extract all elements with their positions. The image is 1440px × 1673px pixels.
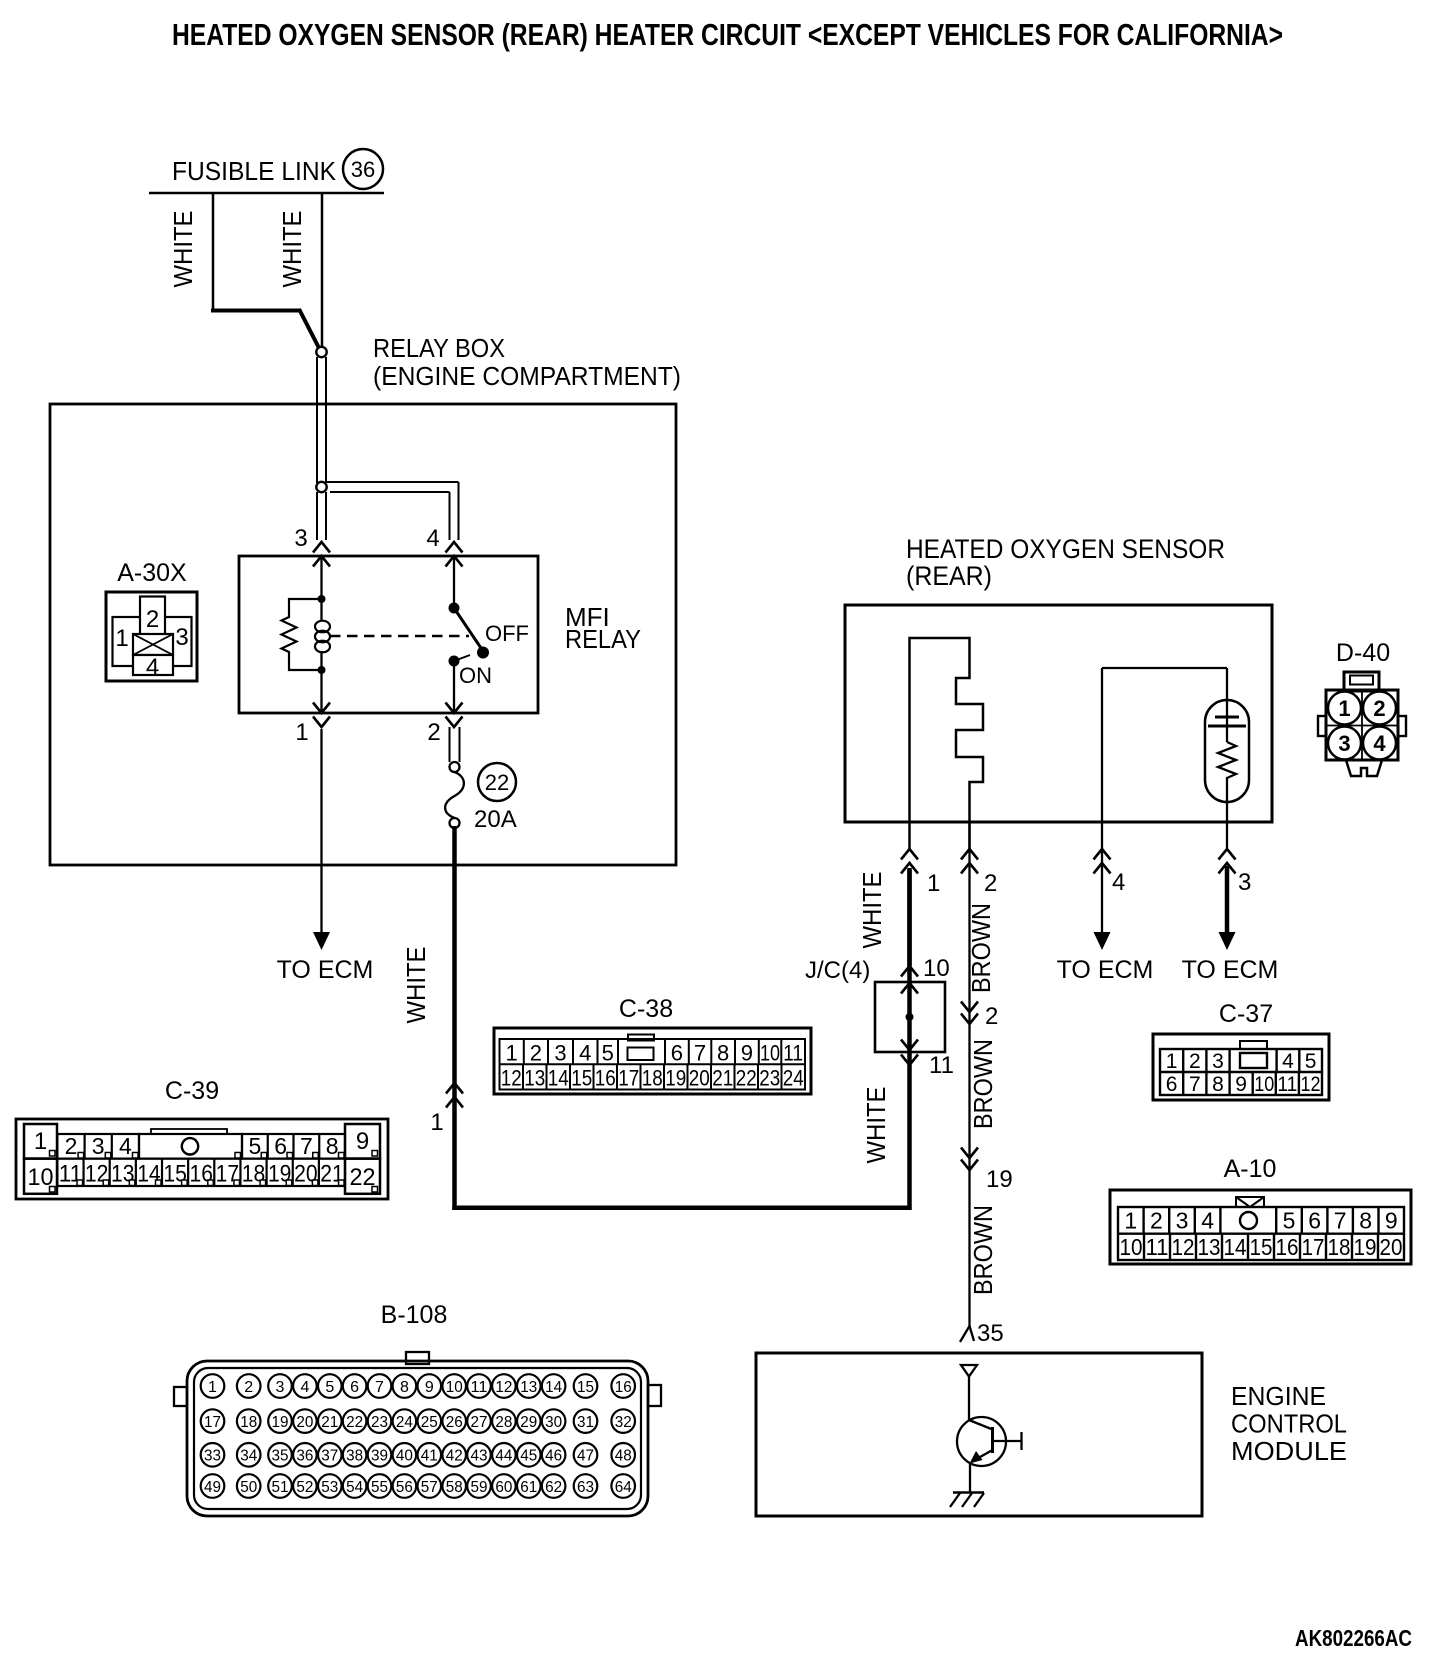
svg-text:13: 13 [1198, 1234, 1221, 1260]
A-30X crossed key box [133, 634, 173, 655]
svg-text:27: 27 [471, 1414, 488, 1431]
engine control module box [756, 1353, 1202, 1516]
svg-text:25: 25 [421, 1414, 438, 1431]
svg-text:4: 4 [300, 1379, 309, 1396]
svg-text:18: 18 [642, 1066, 663, 1091]
svg-text:49: 49 [204, 1479, 221, 1496]
J/C(4) junction box [875, 982, 945, 1052]
svg-text:22: 22 [485, 770, 509, 795]
C-39 bottom row cells 11-21 [57, 1159, 345, 1186]
svg-text:30: 30 [545, 1414, 562, 1431]
sensor pin 3 to-ECM arrowhead [1219, 932, 1236, 950]
A-30X pin 4 cell [133, 655, 173, 675]
A-10 inner box [1118, 1207, 1404, 1260]
C-39 key cell with circle [139, 1134, 242, 1159]
sensor pin 3 chevrons [1219, 849, 1236, 860]
svg-text:39: 39 [371, 1448, 388, 1465]
svg-text:21: 21 [321, 1414, 338, 1431]
svg-text:2: 2 [985, 1003, 998, 1030]
svg-text:16: 16 [1276, 1234, 1299, 1260]
D-40 pin circles [1328, 692, 1361, 725]
C-39 pin 22 box [345, 1159, 380, 1194]
svg-text:6: 6 [274, 1133, 287, 1159]
svg-text:59: 59 [471, 1479, 488, 1496]
svg-text:10: 10 [923, 955, 950, 982]
svg-text:5: 5 [1305, 1050, 1317, 1073]
svg-text:CONTROL: CONTROL [1231, 1409, 1347, 1439]
svg-text:3: 3 [554, 1041, 566, 1066]
svg-text:ENGINE: ENGINE [1231, 1381, 1326, 1411]
B-108 outer shell [187, 1361, 648, 1516]
svg-text:37: 37 [321, 1448, 338, 1465]
svg-text:55: 55 [371, 1479, 388, 1496]
relay coil [318, 595, 326, 603]
svg-text:WHITE: WHITE [861, 1087, 891, 1164]
MFI relay box [239, 556, 538, 713]
svg-text:60: 60 [495, 1479, 512, 1496]
svg-text:RELAY: RELAY [565, 624, 641, 654]
svg-text:18: 18 [240, 1414, 257, 1431]
pin 2 chevrons [446, 703, 463, 714]
svg-text:C-38: C-38 [619, 995, 673, 1023]
svg-text:12: 12 [495, 1379, 512, 1396]
D-40 side tabs [1318, 716, 1326, 736]
svg-text:20: 20 [296, 1414, 313, 1431]
svg-text:FUSIBLE LINK: FUSIBLE LINK [172, 156, 337, 186]
pin 1 chevrons [313, 703, 330, 714]
sensor pin 3 wire thick [1225, 866, 1230, 934]
relay box entry terminal circle [316, 347, 326, 357]
A-30X horizontal cell (pins 1,3) [113, 617, 192, 666]
svg-text:2: 2 [1189, 1050, 1201, 1073]
wire bus double-line into relay box [316, 357, 318, 483]
svg-text:64: 64 [615, 1479, 632, 1496]
C-38 key slot [628, 1048, 654, 1061]
arrowhead to ECM [313, 932, 330, 950]
svg-text:ON: ON [459, 663, 492, 688]
A-10 outer box [1110, 1190, 1411, 1264]
svg-text:14: 14 [1224, 1234, 1247, 1260]
fuse 22 double-line lead [449, 727, 451, 762]
C-39 outer box [16, 1119, 388, 1199]
svg-text:7: 7 [300, 1133, 313, 1159]
svg-text:50: 50 [240, 1479, 257, 1496]
C-39 cell notches [50, 1151, 56, 1157]
svg-text:40: 40 [396, 1448, 413, 1465]
svg-text:22: 22 [346, 1414, 363, 1431]
sensor element (zirconia comb) [910, 638, 984, 849]
svg-text:3: 3 [1338, 731, 1350, 756]
svg-text:13: 13 [520, 1379, 537, 1396]
C-39 key top bar [151, 1129, 227, 1134]
svg-text:11: 11 [929, 1052, 954, 1079]
svg-text:2: 2 [1373, 696, 1385, 721]
B-108 pin circles [201, 1374, 225, 1398]
fuse element S-curve [445, 772, 464, 818]
svg-text:20: 20 [1380, 1234, 1403, 1260]
svg-text:2: 2 [146, 606, 159, 633]
relay box (engine compartment) [50, 404, 676, 865]
svg-text:23: 23 [759, 1066, 780, 1091]
svg-text:19: 19 [665, 1066, 686, 1091]
svg-text:9: 9 [356, 1128, 369, 1155]
svg-text:(REAR): (REAR) [906, 561, 992, 591]
svg-text:11: 11 [1277, 1073, 1297, 1096]
svg-text:2: 2 [984, 870, 997, 897]
svg-text:4: 4 [146, 654, 159, 681]
svg-text:46: 46 [545, 1448, 562, 1465]
svg-text:17: 17 [204, 1414, 221, 1431]
sensor pin 4 to-ECM arrowhead [1094, 932, 1111, 950]
A-10 key flag [1236, 1197, 1264, 1207]
svg-text:24: 24 [396, 1414, 413, 1431]
C-38 pin 2 chevrons on brown wire [961, 1002, 978, 1013]
svg-text:61: 61 [520, 1479, 537, 1496]
wire white left from fusible link [212, 193, 215, 310]
svg-text:52: 52 [296, 1479, 313, 1496]
svg-text:8: 8 [400, 1379, 409, 1396]
svg-text:57: 57 [421, 1479, 438, 1496]
svg-text:9: 9 [425, 1379, 434, 1396]
svg-text:HEATED OXYGEN SENSOR: HEATED OXYGEN SENSOR [906, 534, 1225, 564]
svg-text:12: 12 [501, 1066, 522, 1091]
svg-text:3: 3 [1176, 1208, 1189, 1234]
svg-text:AK802266AC: AK802266AC [1295, 1625, 1412, 1651]
svg-text:7: 7 [1189, 1073, 1201, 1096]
wire white thick from fuse down [452, 826, 457, 1210]
C-38 key tab [628, 1035, 654, 1041]
relay resistor (parallel with coil) [282, 599, 322, 670]
svg-text:43: 43 [471, 1448, 488, 1465]
B-108 side tabs [174, 1387, 187, 1406]
svg-text:20A: 20A [474, 806, 517, 833]
svg-text:9: 9 [741, 1041, 753, 1066]
svg-text:47: 47 [577, 1448, 594, 1465]
svg-text:10: 10 [446, 1379, 463, 1396]
svg-text:OFF: OFF [485, 621, 529, 646]
svg-text:TO ECM: TO ECM [277, 956, 374, 984]
svg-text:45: 45 [520, 1448, 537, 1465]
svg-text:BROWN: BROWN [968, 1039, 998, 1129]
svg-text:1: 1 [115, 625, 128, 652]
ECM pin 35 branch fork [960, 1326, 970, 1342]
svg-text:1: 1 [1338, 696, 1350, 721]
C-39 pin 9 box [345, 1124, 380, 1159]
svg-text:5: 5 [602, 1041, 614, 1066]
svg-text:11: 11 [783, 1041, 803, 1066]
svg-text:7: 7 [694, 1041, 706, 1066]
svg-text:18: 18 [1328, 1234, 1351, 1260]
D-40 bottom feet [1346, 760, 1382, 776]
svg-text:36: 36 [296, 1448, 313, 1465]
svg-text:C-37: C-37 [1219, 1000, 1273, 1028]
wire heater to pin 3 [1226, 802, 1228, 849]
svg-text:53: 53 [321, 1479, 338, 1496]
C-39 cells 2-4 [57, 1134, 139, 1159]
svg-text:4: 4 [1201, 1208, 1214, 1234]
svg-text:8: 8 [326, 1133, 339, 1159]
svg-text:MODULE: MODULE [1231, 1436, 1347, 1466]
svg-text:4: 4 [426, 525, 439, 552]
sensor pin 4 wire [1101, 822, 1103, 933]
svg-text:5: 5 [1283, 1208, 1296, 1234]
svg-text:8: 8 [1212, 1073, 1224, 1096]
svg-text:11: 11 [471, 1379, 488, 1396]
svg-text:38: 38 [346, 1448, 363, 1465]
svg-text:1: 1 [34, 1128, 47, 1155]
wire white right from fusible link [321, 193, 324, 347]
svg-text:1: 1 [927, 870, 940, 897]
J/C(4) pin 11 chevrons [901, 1040, 918, 1051]
D-40 body [1326, 690, 1398, 760]
svg-text:63: 63 [577, 1479, 594, 1496]
svg-text:17: 17 [1302, 1234, 1325, 1260]
svg-text:42: 42 [446, 1448, 463, 1465]
svg-text:RELAY BOX: RELAY BOX [373, 333, 505, 363]
relay switch [453, 556, 455, 604]
svg-text:19: 19 [1354, 1234, 1377, 1260]
svg-text:54: 54 [346, 1479, 363, 1496]
svg-text:12: 12 [1172, 1234, 1195, 1260]
svg-text:7: 7 [375, 1379, 384, 1396]
svg-text:44: 44 [495, 1448, 512, 1465]
svg-text:1: 1 [430, 1109, 443, 1136]
svg-text:HEATED OXYGEN SENSOR (REAR) HE: HEATED OXYGEN SENSOR (REAR) HEATER CIRCU… [172, 17, 1283, 52]
svg-text:2: 2 [530, 1041, 542, 1066]
svg-text:6: 6 [671, 1041, 683, 1066]
C-37 inner box [1160, 1049, 1322, 1095]
svg-text:48: 48 [615, 1448, 632, 1465]
svg-text:58: 58 [446, 1479, 463, 1496]
wire coil to pin 1 [320, 670, 322, 713]
svg-text:20: 20 [689, 1066, 710, 1091]
svg-text:16: 16 [595, 1066, 616, 1091]
heater element capsule [1205, 700, 1249, 802]
svg-text:17: 17 [618, 1066, 639, 1091]
svg-text:14: 14 [548, 1066, 569, 1091]
svg-text:3: 3 [294, 525, 307, 552]
svg-text:23: 23 [371, 1414, 388, 1431]
transistor Q (driver) [968, 1377, 970, 1421]
sensor pin 1 chevrons [901, 849, 918, 860]
svg-text:J/C(4): J/C(4) [805, 957, 870, 984]
svg-text:3: 3 [276, 1379, 285, 1396]
wire bus to MFI relay pin 3 [316, 492, 318, 540]
svg-text:2: 2 [427, 719, 440, 746]
D-40 top key tab [1344, 672, 1379, 691]
svg-text:D-40: D-40 [1336, 639, 1390, 667]
svg-text:BROWN: BROWN [966, 903, 996, 993]
svg-text:4: 4 [1373, 731, 1386, 756]
svg-text:22: 22 [736, 1066, 757, 1091]
A-10 key circle [1240, 1212, 1257, 1229]
sensor pin 4 chevrons [1094, 849, 1111, 860]
svg-text:3: 3 [92, 1133, 105, 1159]
junction node circle in relay box [316, 482, 326, 492]
svg-text:1: 1 [506, 1041, 518, 1066]
C-37 key tab [1240, 1041, 1267, 1049]
svg-text:2: 2 [244, 1379, 253, 1396]
heater resistor zigzag [1218, 742, 1236, 802]
svg-text:10: 10 [760, 1041, 780, 1066]
svg-text:4: 4 [1112, 869, 1125, 896]
svg-text:62: 62 [545, 1479, 562, 1496]
C-39 cells 5-8 [242, 1134, 345, 1159]
A-30X outer box [106, 592, 197, 681]
svg-text:28: 28 [495, 1414, 512, 1431]
sensor pin 2 chevrons [961, 849, 978, 860]
svg-text:6: 6 [1166, 1073, 1178, 1096]
svg-text:WHITE: WHITE [168, 211, 198, 288]
svg-text:15: 15 [577, 1379, 594, 1396]
C-38 inner box [500, 1039, 806, 1090]
svg-text:31: 31 [577, 1414, 594, 1431]
wire pin3 to coil [320, 556, 322, 599]
svg-text:1: 1 [208, 1379, 217, 1396]
wire through J/C(4) [907, 870, 912, 1052]
svg-text:WHITE: WHITE [401, 947, 431, 1024]
svg-text:1: 1 [1166, 1050, 1178, 1073]
svg-text:WHITE: WHITE [857, 872, 887, 949]
connector C-39 pin 1 chevrons on wire [446, 1083, 463, 1094]
svg-text:(ENGINE COMPARTMENT): (ENGINE COMPARTMENT) [373, 361, 681, 391]
wire relay pin 1 to ECM arrow [320, 729, 322, 934]
svg-text:BROWN: BROWN [968, 1205, 998, 1295]
B-108 top tab [406, 1352, 429, 1364]
svg-text:1: 1 [1124, 1208, 1137, 1234]
svg-text:9: 9 [1235, 1073, 1247, 1096]
svg-text:41: 41 [421, 1448, 438, 1465]
wire bus branch to MFI relay pin 4 [326, 481, 459, 483]
svg-text:32: 32 [615, 1414, 632, 1431]
svg-text:5: 5 [325, 1379, 334, 1396]
wire white vertical up to J/C(4) [907, 1052, 912, 1210]
fuse number 22 circle [478, 763, 516, 801]
svg-text:35: 35 [272, 1448, 289, 1465]
svg-text:TO ECM: TO ECM [1182, 956, 1279, 984]
svg-text:4: 4 [119, 1133, 132, 1159]
svg-text:26: 26 [446, 1414, 463, 1431]
fusible link bus bar [149, 192, 384, 195]
ground (chassis) [953, 1491, 984, 1494]
heater plate long [1208, 725, 1246, 728]
ECM input triangle [961, 1365, 977, 1377]
C-38 outer box [494, 1028, 811, 1094]
svg-text:19: 19 [986, 1166, 1013, 1193]
svg-text:21: 21 [712, 1066, 733, 1091]
sensor pin 2 wire brown [968, 822, 970, 1329]
svg-text:A-10: A-10 [1224, 1155, 1277, 1183]
svg-text:36: 36 [351, 157, 375, 182]
J/C(4) pin 10 chevrons [901, 966, 918, 977]
heated oxygen sensor box [845, 605, 1272, 822]
wire white thick sensor pin1 (overlay) [907, 868, 912, 966]
svg-text:6: 6 [1308, 1208, 1321, 1234]
svg-text:33: 33 [204, 1448, 221, 1465]
pin 4 chevrons [446, 542, 463, 553]
svg-text:12: 12 [1300, 1073, 1320, 1096]
svg-text:2: 2 [1150, 1208, 1163, 1234]
svg-text:3: 3 [1212, 1050, 1224, 1073]
svg-text:2: 2 [65, 1133, 78, 1159]
svg-text:10: 10 [1254, 1073, 1274, 1096]
svg-text:16: 16 [615, 1379, 632, 1396]
svg-text:15: 15 [571, 1066, 592, 1091]
svg-text:7: 7 [1334, 1208, 1347, 1234]
J/C(4) junction dot [906, 1013, 914, 1021]
fusible link number 36 circle [343, 149, 383, 189]
svg-text:56: 56 [396, 1479, 413, 1496]
svg-text:8: 8 [1359, 1208, 1372, 1234]
svg-text:35: 35 [977, 1320, 1004, 1347]
svg-text:34: 34 [240, 1448, 257, 1465]
svg-text:WHITE: WHITE [277, 211, 307, 288]
D-40 divider lines [1326, 725, 1398, 727]
sensor heater wire pin 4 [1101, 668, 1103, 822]
A-30X pin 2 cell [140, 597, 165, 636]
svg-text:19: 19 [272, 1414, 289, 1431]
C-37 outer box [1153, 1034, 1329, 1100]
svg-text:4: 4 [579, 1041, 591, 1066]
A-10 pin 19 chevrons on brown wire [961, 1148, 978, 1159]
svg-text:11: 11 [1146, 1234, 1169, 1260]
wire white horizontal run [452, 1206, 911, 1211]
C-39 pin 10 box [24, 1159, 57, 1194]
svg-text:6: 6 [350, 1379, 359, 1396]
C-39 pin 1 box [24, 1124, 57, 1159]
svg-text:5: 5 [249, 1133, 262, 1159]
svg-text:9: 9 [1385, 1208, 1398, 1234]
svg-text:51: 51 [272, 1479, 289, 1496]
heater plate short [1215, 716, 1239, 719]
svg-text:13: 13 [524, 1066, 545, 1091]
svg-text:8: 8 [717, 1041, 729, 1066]
svg-text:29: 29 [520, 1414, 537, 1431]
svg-text:A-30X: A-30X [117, 559, 187, 587]
C-37 key slot [1240, 1053, 1267, 1068]
svg-text:10: 10 [1120, 1234, 1143, 1260]
pin 3 chevrons [313, 542, 330, 553]
svg-text:14: 14 [545, 1379, 562, 1396]
svg-text:3: 3 [1238, 869, 1251, 896]
svg-text:C-39: C-39 [165, 1077, 219, 1105]
svg-text:TO ECM: TO ECM [1057, 956, 1154, 984]
relay actuation dashed line [330, 635, 469, 638]
svg-text:4: 4 [1282, 1050, 1294, 1073]
fuse terminal circle top [450, 762, 460, 772]
svg-text:15: 15 [1250, 1234, 1273, 1260]
svg-text:1: 1 [295, 719, 308, 746]
fuse terminal circle bottom [450, 818, 460, 828]
svg-text:24: 24 [783, 1066, 804, 1091]
svg-text:3: 3 [175, 624, 188, 651]
svg-text:B-108: B-108 [381, 1301, 448, 1329]
